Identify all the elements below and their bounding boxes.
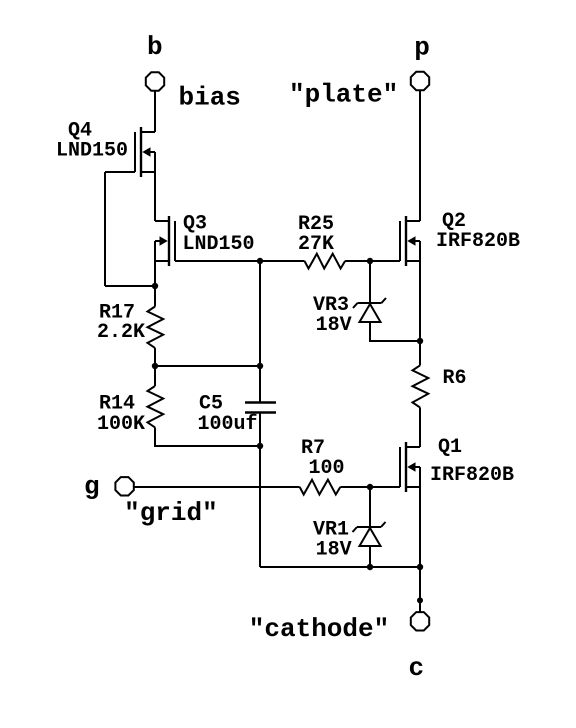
terminal p octagon xyxy=(411,72,429,90)
transistor Q1 xyxy=(400,442,420,492)
Q2 drain lead xyxy=(406,220,420,222)
terminal b octagon xyxy=(146,72,164,90)
Q4 channel bar xyxy=(140,127,142,177)
svg-text:Q3: Q3 xyxy=(183,212,207,235)
junction dot Q3 gate node xyxy=(257,258,263,264)
VR1 cathode bar xyxy=(357,526,381,528)
VR3 bottom lead xyxy=(370,322,420,341)
C5 bottom lead xyxy=(259,413,261,447)
wire junction row to C5 top xyxy=(155,365,260,367)
junction dot C5 bottom xyxy=(257,443,263,449)
svg-text:18V: 18V xyxy=(316,314,352,337)
svg-text:100uf: 100uf xyxy=(198,413,258,436)
Q4 gate bar xyxy=(134,132,136,172)
zener diode VR1 xyxy=(353,487,386,567)
svg-text:100K: 100K xyxy=(97,413,145,436)
wire Q2 source to R6 xyxy=(419,261,421,365)
svg-text:R14: R14 xyxy=(99,392,135,415)
svg-text:LND150: LND150 xyxy=(183,233,255,256)
terminal c octagon xyxy=(411,612,429,630)
wire Q4 source to Q3 drain xyxy=(154,172,156,221)
resistor R7 xyxy=(300,480,341,495)
VR1 left wing xyxy=(353,527,358,532)
wire R25 left xyxy=(260,260,305,262)
svg-text:IRF820B: IRF820B xyxy=(430,464,514,487)
wire p terminal to Q2 drain xyxy=(419,90,421,221)
Q2 arrow head xyxy=(407,236,415,245)
svg-text:c: c xyxy=(409,653,425,683)
wire b terminal to Q4 drain xyxy=(154,91,156,132)
Q3 arrow shaft xyxy=(155,240,163,242)
svg-text:IRF820B: IRF820B xyxy=(436,230,520,253)
Q3 arrow head xyxy=(160,236,168,245)
Q2 arrow shaft xyxy=(412,240,420,242)
wire to Q2 gate xyxy=(370,260,400,262)
Q3 gate lead xyxy=(175,260,260,262)
svg-text:"grid": "grid" xyxy=(124,498,218,528)
wire Q1 source to c terminal xyxy=(419,487,421,612)
resistor R6 xyxy=(413,365,429,407)
junction node at R17 top xyxy=(152,283,158,289)
wire R25 right to VR3 junction xyxy=(345,260,370,262)
Q3 mid vertical and source continuation xyxy=(154,241,156,286)
Q4 mid vertical xyxy=(154,152,156,172)
svg-text:LND150: LND150 xyxy=(56,140,128,163)
resistor R25 xyxy=(305,254,346,269)
junction dot cathode corner xyxy=(417,564,423,570)
svg-text:100: 100 xyxy=(309,457,345,480)
svg-text:"cathode": "cathode" xyxy=(249,614,389,644)
svg-text:b: b xyxy=(147,32,163,62)
VR3 cathode bar xyxy=(358,302,382,304)
wire R17/R14 junction to R14 xyxy=(154,366,156,386)
VR3 right wing xyxy=(382,298,387,303)
wire R14 bottom xyxy=(155,427,260,446)
junction dot VR1 bottom xyxy=(367,564,373,570)
Q3 channel bar xyxy=(168,216,170,266)
svg-text:"plate": "plate" xyxy=(289,80,398,110)
wire R6 to Q1 drain xyxy=(419,407,421,447)
svg-text:2.2K: 2.2K xyxy=(97,321,145,344)
Q4 source lead xyxy=(141,171,155,173)
C5 top plate xyxy=(245,401,276,404)
svg-text:27K: 27K xyxy=(298,233,334,256)
wire grid row left xyxy=(134,486,300,488)
junction dot C5 top xyxy=(257,363,263,369)
junction dot above c terminal xyxy=(417,597,423,603)
Q1 channel bar xyxy=(405,442,407,492)
Q3 gate bar xyxy=(174,221,176,261)
C5 bottom plate xyxy=(245,411,276,414)
Q4 drain lead xyxy=(141,131,155,133)
resistor R17 xyxy=(148,307,164,348)
svg-text:bias: bias xyxy=(179,83,241,113)
Q2 source lead xyxy=(406,260,420,262)
resistor R14 xyxy=(148,386,164,427)
Q2 mid vertical xyxy=(419,241,421,261)
VR1 anode triangle xyxy=(360,528,381,546)
svg-text:g: g xyxy=(84,472,100,502)
Q4 arrow head xyxy=(142,147,150,156)
transistor Q4 xyxy=(105,127,155,177)
svg-text:C5: C5 xyxy=(199,392,223,415)
Q4 arrow shaft xyxy=(147,151,155,153)
wire gate node down to C5 xyxy=(259,261,261,366)
junction dot VR3 top xyxy=(367,258,373,264)
Q2 channel bar xyxy=(405,216,407,266)
VR3 anode triangle xyxy=(360,304,381,322)
Q1 gate bar xyxy=(399,447,401,487)
Q2 gate bar xyxy=(399,221,401,261)
junction dot VR3 bottom xyxy=(417,338,423,344)
transistor Q2 xyxy=(400,216,420,266)
VR1 right wing xyxy=(381,522,386,527)
svg-text:Q1: Q1 xyxy=(438,436,462,459)
wire R7 to Q1 gate xyxy=(340,486,400,488)
Q1 mid vertical xyxy=(419,467,421,487)
VR1 top lead xyxy=(369,487,371,527)
svg-text:R6: R6 xyxy=(443,367,467,390)
terminal g octagon xyxy=(115,477,133,495)
Q1 drain lead xyxy=(406,446,420,448)
wire Q4 gate feedback horizontal xyxy=(105,285,155,287)
wire Q4 gate feedback vertical xyxy=(104,172,106,286)
Q1 source lead xyxy=(406,486,420,488)
C5 top lead xyxy=(259,366,261,402)
Q3 source lead xyxy=(155,260,169,262)
Q4 gate lead xyxy=(105,171,135,173)
svg-text:p: p xyxy=(414,33,430,63)
wire junction to R17 xyxy=(154,286,156,307)
capacitor C5 xyxy=(245,366,276,446)
VR1 bottom lead xyxy=(369,546,371,567)
transistor Q3 xyxy=(155,216,260,286)
VR3 left wing xyxy=(353,303,358,308)
Q1 arrow head xyxy=(407,462,415,471)
VR3 top lead xyxy=(369,261,371,303)
Q1 arrow shaft xyxy=(412,466,420,468)
junction dot VR1 top xyxy=(367,484,373,490)
wire cathode row horizontal xyxy=(260,566,420,568)
Q3 drain lead xyxy=(155,220,169,222)
svg-text:18V: 18V xyxy=(316,539,352,562)
wire R17 to junction xyxy=(154,348,156,366)
wire C5 bottom to cathode row xyxy=(259,446,261,567)
junction dot R17/R14 xyxy=(152,363,158,369)
zener diode VR3 xyxy=(353,261,420,341)
